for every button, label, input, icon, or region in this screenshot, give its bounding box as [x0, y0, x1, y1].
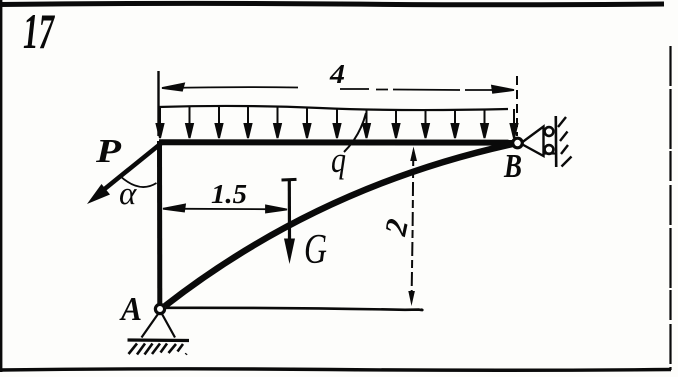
dimension 4: right extension line (dashed): [516, 76, 518, 136]
svg-text:α: α: [119, 176, 137, 212]
bottom reference line from A: [166, 308, 422, 310]
support A ground line: [128, 338, 190, 342]
svg-text:P: P: [95, 133, 121, 170]
support B wall hatching: [558, 117, 572, 167]
dimension 1.5 line with arrows: [163, 205, 287, 213]
beam (horizontal member corner to B): [159, 139, 514, 145]
support B triangle: [523, 127, 544, 157]
force P arrow: [87, 141, 164, 204]
support B bracket lines: [544, 152, 557, 154]
support B rollers: [545, 127, 554, 136]
svg-text:1.5: 1.5: [211, 179, 247, 209]
pin A circle: [155, 304, 164, 313]
svg-text:B: B: [503, 148, 522, 185]
support A triangle: [142, 314, 176, 338]
svg-text:A: A: [119, 291, 142, 328]
leader line for q: [344, 113, 366, 152]
support B wall line: [554, 116, 557, 167]
dimension 2: down arrow at bottom: [408, 291, 415, 306]
svg-text:17: 17: [23, 3, 55, 59]
arch member A-B: [165, 144, 515, 307]
distributed load q arrows: [157, 106, 518, 139]
distributed load q top line: [158, 106, 508, 110]
dimension 2: dashed vertical line: [412, 152, 414, 296]
column (vertical member from corner to A): [157, 141, 162, 304]
dimension 4: left extension line: [157, 71, 159, 136]
frame borders (decorative): [0, 3, 664, 4]
force G: [282, 179, 297, 264]
svg-text:G: G: [304, 227, 327, 273]
svg-text:q: q: [331, 140, 346, 180]
support A hatching: [129, 344, 187, 355]
angle alpha arc: [119, 175, 157, 187]
pin B circle: [513, 138, 523, 148]
dimension 4: dimension line with arrows: [162, 84, 514, 93]
dimension 2: up arrow at beam: [410, 147, 417, 162]
svg-text:4: 4: [329, 59, 345, 89]
